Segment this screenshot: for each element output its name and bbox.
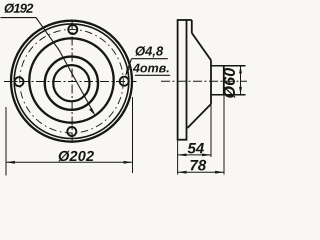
extension line from flange left for 54 and 78 [177,140,179,175]
label Ø192 leader arrowhead [89,108,95,116]
hub outer circle [45,57,98,110]
dimension 78 right arrowhead [215,171,224,174]
dimension Ø60 text (rotated) [223,68,235,98]
extension line from hub right edge for 78 [223,95,225,175]
hole top [68,25,77,34]
dimension Ø202 left arrowhead [6,161,15,164]
circle Ø192 (inner rim circle) [14,24,129,139]
hole right [120,77,129,86]
label Ø4,8 text [135,46,163,57]
dimension Ø202 right arrowhead [124,161,133,164]
side view top step cap [187,19,192,21]
label Ø192 text [4,3,33,13]
side view hub right edge [223,66,225,95]
side view top cone diagonal [192,33,211,60]
horizontal centerline [4,81,137,83]
hole bottom [67,127,76,136]
dimension Ø60 bottom arrowhead [239,87,242,95]
label 4отв. underline [135,74,170,76]
dimension Ø202 right extension line [132,97,134,173]
side view top step vertical [191,20,193,33]
dimension 54 left arrowhead [178,154,187,157]
dimension Ø60 top arrowhead [239,66,242,74]
bolt circle (dash-dot) [20,29,124,133]
hole left [15,77,24,86]
label Ø192 leader line [1,18,94,113]
side view centerline [161,80,247,82]
side view bottom cone diagonal [187,104,211,128]
dimension 54 line [178,154,211,156]
dimension 78 line [178,171,224,173]
dimension 54 text [188,143,204,153]
middle circle (cone opening) [29,38,113,122]
dimension Ø60 line [240,66,242,95]
dimension 78 left arrowhead [178,171,187,174]
side view hub top edge with Ø60 top extension [211,65,246,67]
extension line from hub left wall for 54 [210,104,212,157]
vertical centerline [71,21,73,142]
label 4отв. text [133,64,169,73]
label Ø4,8 underline [131,58,167,60]
side view hub bottom edge with Ø60 bottom extension [211,94,246,96]
dimension Ø202 line [6,161,133,163]
dimension 54 right arrowhead [202,154,211,157]
side view flange outline [178,20,187,140]
dimension 78 text [191,160,207,171]
side view hub left wall [210,60,212,104]
label Ø4,8 leader line [126,59,131,75]
hub inner circle [53,65,89,101]
label Ø4,8 leader arrowhead [125,68,129,77]
dimension Ø202 text [58,151,94,162]
outer circle Ø202 (front view rim) [11,21,132,142]
dimension Ø202 left extension line [5,107,7,176]
